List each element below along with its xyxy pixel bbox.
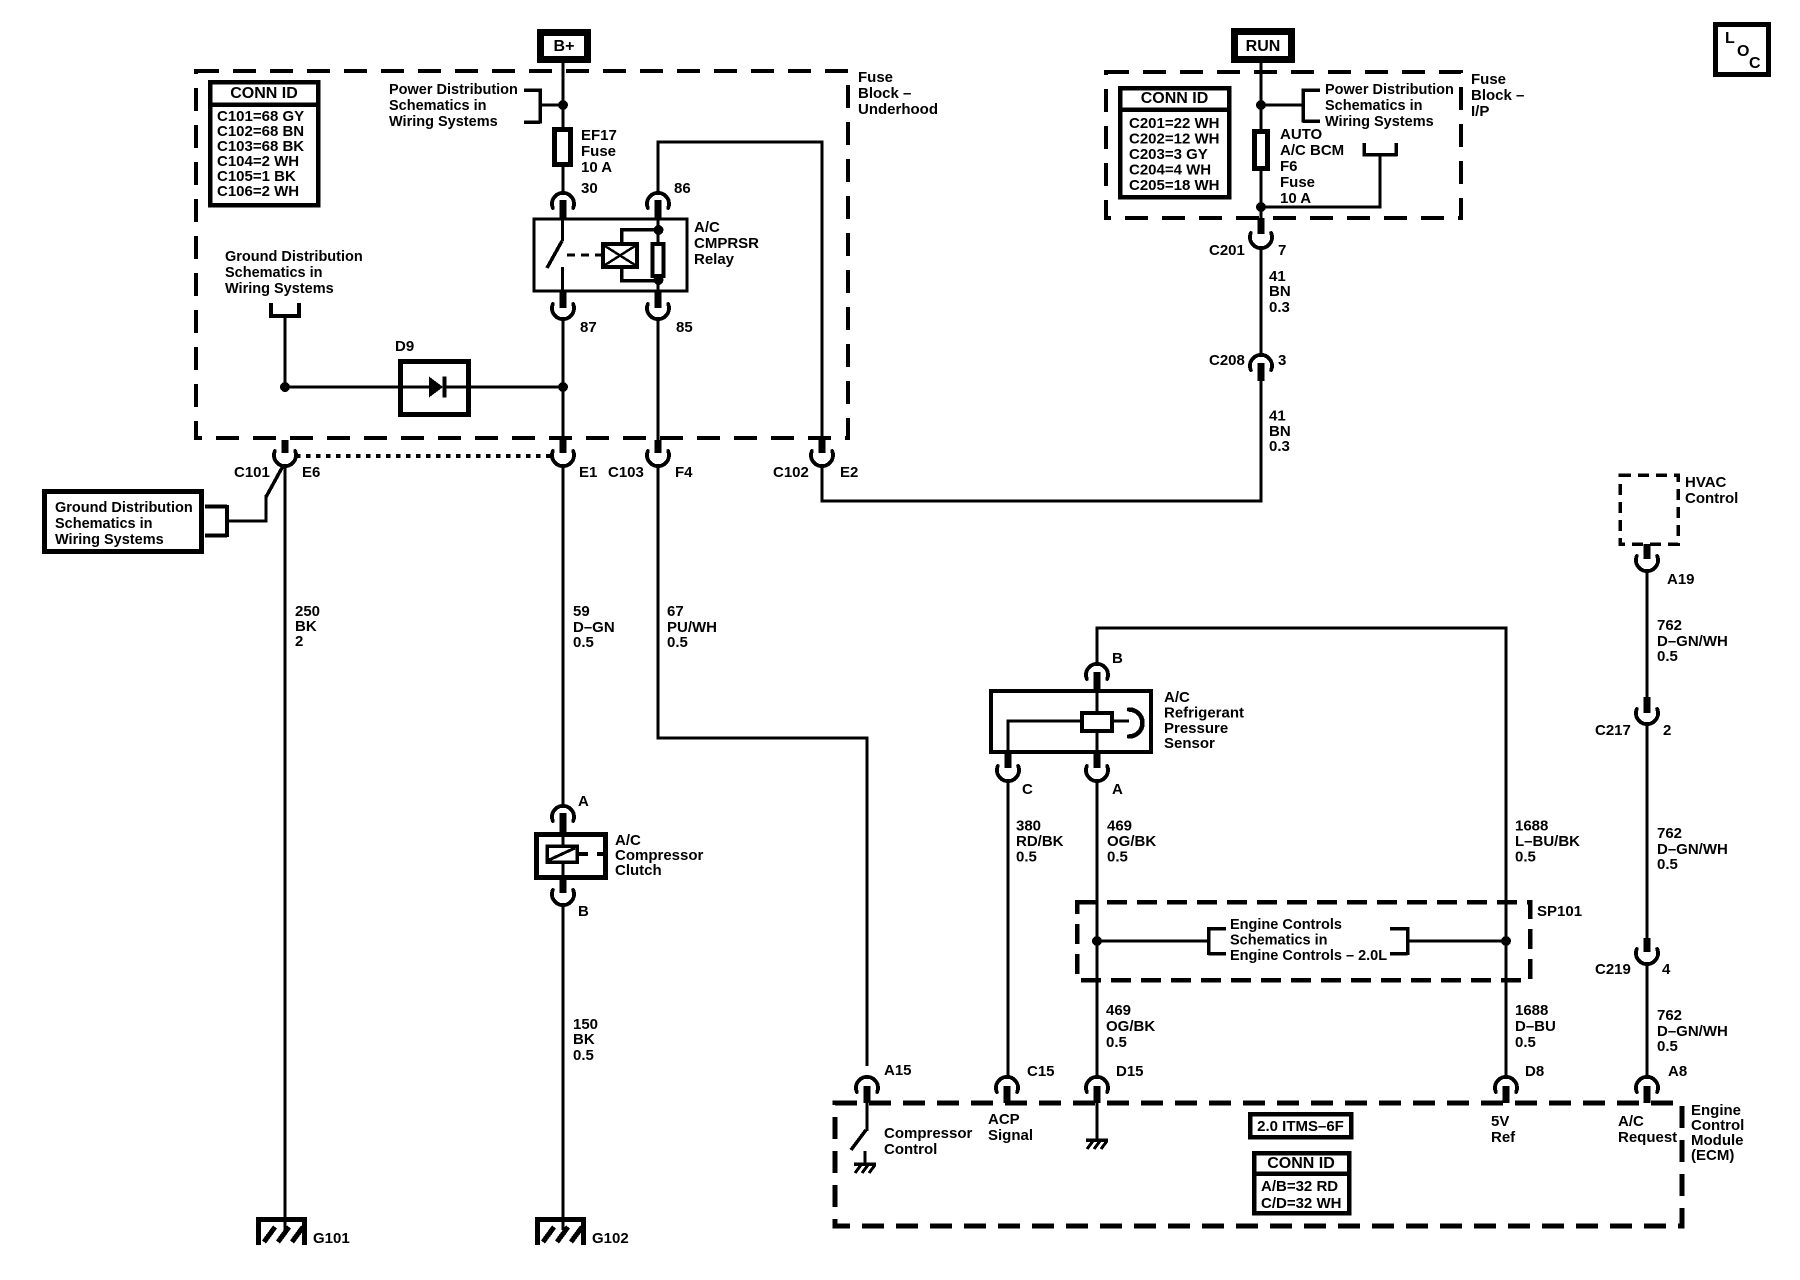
connector body dotted line C103 <box>296 454 552 458</box>
svg-text:0.5: 0.5 <box>1657 856 1678 873</box>
svg-text:E6: E6 <box>302 464 320 481</box>
svg-text:E2: E2 <box>840 464 858 481</box>
svg-text:0.5: 0.5 <box>573 634 594 651</box>
wire C101 branch to ground callout <box>266 466 283 497</box>
power symbol B+ <box>541 33 588 60</box>
splice pack SP101 dashed box <box>1077 902 1530 980</box>
svg-text:0.5: 0.5 <box>1016 849 1037 866</box>
svg-text:Ground Distribution: Ground Distribution <box>225 249 363 265</box>
wire E2 to C208 junction <box>821 466 824 503</box>
svg-text:Refrigerant: Refrigerant <box>1164 705 1244 722</box>
connector C103 pin E1 <box>560 440 567 453</box>
svg-text:86: 86 <box>674 180 691 197</box>
svg-text:D8: D8 <box>1525 1063 1544 1080</box>
svg-text:30: 30 <box>581 180 598 197</box>
CONN ID table (underhood) <box>210 82 318 205</box>
svg-text:41: 41 <box>1269 408 1286 425</box>
wire B+ down to fuse EF17 <box>562 63 565 130</box>
svg-text:C103: C103 <box>608 464 644 481</box>
svg-text:C102: C102 <box>773 464 809 481</box>
svg-text:E1: E1 <box>579 464 597 481</box>
svg-text:59: 59 <box>573 603 590 620</box>
connector ECM pin C15 <box>996 1077 1018 1092</box>
svg-text:Control: Control <box>1685 490 1738 507</box>
ECM compressor control switch <box>866 1103 869 1131</box>
svg-text:C201: C201 <box>1209 242 1245 259</box>
svg-text:10 A: 10 A <box>1280 190 1311 207</box>
svg-text:CMPRSR: CMPRSR <box>694 235 759 252</box>
connector C201 pin 7 <box>1258 218 1265 234</box>
fuse F6 AUTO A/C BCM 10A <box>1255 132 1268 169</box>
svg-text:L: L <box>1725 30 1735 47</box>
svg-text:D–BU: D–BU <box>1515 1018 1556 1035</box>
svg-text:380: 380 <box>1016 818 1041 835</box>
svg-text:Block –: Block – <box>858 85 911 102</box>
svg-text:A/B=32 RD: A/B=32 RD <box>1261 1178 1338 1195</box>
connector ECM pin A15 <box>856 1077 878 1092</box>
node D9 wire left <box>280 382 290 392</box>
svg-text:AUTO: AUTO <box>1280 126 1323 143</box>
svg-text:A/C: A/C <box>694 219 720 236</box>
svg-text:BN: BN <box>1269 283 1291 300</box>
svg-text:Signal: Signal <box>988 1127 1033 1144</box>
svg-text:Power Distribution: Power Distribution <box>1325 82 1454 98</box>
wire SP101 right <box>1407 940 1506 943</box>
wire C219 to A8 <box>1646 964 1649 1077</box>
svg-text:Fuse: Fuse <box>1280 174 1315 191</box>
wire relay 86 feed from C102 <box>657 142 660 194</box>
svg-text:C201=22 WH: C201=22 WH <box>1129 115 1219 132</box>
compressor clutch coil symbol <box>562 832 565 848</box>
svg-text:0.3: 0.3 <box>1269 299 1290 316</box>
svg-text:Underhood: Underhood <box>858 101 938 118</box>
svg-text:L–BU/BK: L–BU/BK <box>1515 833 1580 850</box>
junction node on B+ wire <box>558 100 568 110</box>
wire 5V rail top <box>1096 627 1099 666</box>
callout bracket Power Distribution (underhood) <box>524 88 540 92</box>
connector pin 85 <box>655 291 662 308</box>
svg-text:Wiring Systems: Wiring Systems <box>225 281 334 297</box>
svg-text:Control: Control <box>884 1141 937 1158</box>
svg-text:Engine Controls – 2.0L: Engine Controls – 2.0L <box>1230 948 1387 964</box>
svg-text:0.5: 0.5 <box>1106 1034 1127 1051</box>
connector sensor pin A <box>1094 754 1101 768</box>
svg-text:10 A: 10 A <box>581 159 612 176</box>
connector pin 86 <box>647 193 669 208</box>
svg-text:G102: G102 <box>592 1230 629 1247</box>
svg-text:762: 762 <box>1657 825 1682 842</box>
svg-text:Relay: Relay <box>694 251 735 268</box>
wire E1 to compressor clutch A <box>562 466 565 806</box>
junction node below F6 <box>1256 202 1266 212</box>
svg-text:Request: Request <box>1618 1129 1677 1146</box>
svg-text:2: 2 <box>295 633 303 650</box>
wire sensor A to D15 <box>1096 781 1099 1077</box>
svg-text:Fuse: Fuse <box>1471 71 1506 88</box>
wire D9 left segment <box>285 386 400 389</box>
svg-text:Schematics in: Schematics in <box>55 516 153 532</box>
connector ECM pin D8 <box>1495 1077 1517 1092</box>
svg-text:C217: C217 <box>1595 722 1631 739</box>
svg-text:C/D=32 WH: C/D=32 WH <box>1261 1195 1341 1212</box>
svg-text:I/P: I/P <box>1471 103 1489 120</box>
A/C refrigerant pressure sensor box <box>991 691 1151 752</box>
svg-text:Compressor: Compressor <box>884 1125 973 1142</box>
connector ECM pin A8 <box>1636 1077 1658 1092</box>
svg-text:Wiring Systems: Wiring Systems <box>389 114 498 130</box>
svg-text:A/C: A/C <box>1164 689 1190 706</box>
ECM D15 wire to ground <box>1096 1103 1099 1140</box>
svg-text:O: O <box>1737 43 1749 60</box>
connector C219 pin 4 <box>1644 938 1651 952</box>
svg-text:SP101: SP101 <box>1537 903 1582 920</box>
svg-text:Fuse: Fuse <box>858 69 893 86</box>
wire SP101 left <box>1097 940 1208 943</box>
svg-text:Wiring Systems: Wiring Systems <box>1325 114 1434 130</box>
svg-text:CONN ID: CONN ID <box>230 85 298 102</box>
svg-text:762: 762 <box>1657 1007 1682 1024</box>
wire A19 to C217 <box>1646 571 1649 698</box>
svg-text:OG/BK: OG/BK <box>1106 1018 1155 1035</box>
node SP101 left <box>1092 936 1102 946</box>
svg-text:469: 469 <box>1107 818 1132 835</box>
node SP101 right <box>1501 936 1511 946</box>
wire C101 to G101 <box>284 466 287 1230</box>
connector C101 pin E6 <box>282 440 289 453</box>
connector clutch pin B <box>560 879 567 893</box>
svg-text:Schematics in: Schematics in <box>1230 933 1328 949</box>
svg-text:BK: BK <box>573 1031 595 1048</box>
ECM internal ground (D15) <box>1086 1140 1108 1149</box>
svg-text:C204=4 WH: C204=4 WH <box>1129 162 1211 179</box>
svg-text:Schematics in: Schematics in <box>389 98 487 114</box>
svg-text:Ref: Ref <box>1491 1129 1516 1146</box>
wire clutch B to G102 <box>562 905 565 1230</box>
svg-text:0.5: 0.5 <box>1107 849 1128 866</box>
ECM internal ground (compressor control) <box>854 1164 876 1173</box>
svg-text:CONN ID: CONN ID <box>1267 1155 1335 1172</box>
svg-text:87: 87 <box>580 319 597 336</box>
svg-text:Clutch: Clutch <box>615 862 662 879</box>
svg-text:C101: C101 <box>234 464 270 481</box>
svg-text:ACP: ACP <box>988 1111 1020 1128</box>
svg-text:RD/BK: RD/BK <box>1016 833 1064 850</box>
svg-text:C: C <box>1022 781 1033 798</box>
svg-text:A: A <box>1112 781 1123 798</box>
svg-text:4: 4 <box>1662 961 1671 978</box>
svg-text:1688: 1688 <box>1515 818 1548 835</box>
svg-text:B: B <box>578 903 589 920</box>
svg-text:0.5: 0.5 <box>667 634 688 651</box>
callout bracket engine controls right <box>1406 927 1410 955</box>
engine control module dashed box <box>835 1103 1682 1226</box>
fuse EF17 10A <box>555 130 571 165</box>
svg-text:HVAC: HVAC <box>1685 474 1727 491</box>
svg-text:0.5: 0.5 <box>573 1047 594 1064</box>
compressor clutch box <box>537 835 606 878</box>
connector C208 pin 3 <box>1250 355 1272 370</box>
svg-text:B: B <box>1112 650 1123 667</box>
wire fuse EF17 to relay pin 30 <box>562 167 565 194</box>
svg-text:EF17: EF17 <box>581 127 617 144</box>
ground G102 <box>535 1217 586 1245</box>
connector sensor pin C <box>1005 754 1012 768</box>
connector ECM pin D15 <box>1086 1077 1108 1092</box>
fuse block I/P dashed box <box>1106 72 1461 218</box>
connector sensor pin B <box>1086 664 1108 679</box>
svg-text:C106=2 WH: C106=2 WH <box>217 183 299 200</box>
relay suppression resistor <box>657 219 660 246</box>
connector C103 pin F4 <box>655 440 662 453</box>
svg-text:A8: A8 <box>1668 1063 1687 1080</box>
svg-text:A15: A15 <box>884 1062 912 1079</box>
svg-text:3: 3 <box>1278 352 1286 369</box>
svg-text:0.5: 0.5 <box>1515 1034 1536 1051</box>
svg-text:C208: C208 <box>1209 352 1245 369</box>
diode D9 box <box>401 362 469 415</box>
svg-text:0.5: 0.5 <box>1657 1038 1678 1055</box>
svg-text:CONN ID: CONN ID <box>1141 90 1209 107</box>
svg-text:Ground Distribution: Ground Distribution <box>55 500 193 516</box>
wire sensor C to C15 <box>1007 781 1010 1077</box>
svg-text:0.5: 0.5 <box>1657 648 1678 665</box>
svg-text:762: 762 <box>1657 617 1682 634</box>
svg-text:A: A <box>578 793 589 810</box>
svg-text:5V: 5V <box>1491 1113 1509 1130</box>
ground distribution schematics box (left) <box>45 492 202 552</box>
svg-text:67: 67 <box>667 603 684 620</box>
svg-text:F4: F4 <box>675 464 693 481</box>
svg-text:(ECM): (ECM) <box>1691 1147 1734 1164</box>
wire F4 down and right to A15 <box>657 466 660 740</box>
ground G101 <box>256 1217 307 1245</box>
relay coil (crossed box) <box>603 244 637 267</box>
svg-text:C15: C15 <box>1027 1063 1055 1080</box>
relay A/C CMPRSR box <box>534 219 687 291</box>
svg-text:85: 85 <box>676 319 693 336</box>
svg-text:C205=18 WH: C205=18 WH <box>1129 177 1219 194</box>
svg-text:Power Distribution: Power Distribution <box>389 82 518 98</box>
wire relay 87 down to E1 <box>562 318 565 440</box>
svg-text:2: 2 <box>1663 722 1671 739</box>
svg-text:D9: D9 <box>395 338 414 355</box>
svg-text:469: 469 <box>1106 1002 1131 1019</box>
wire relay 85 down to F4 <box>657 318 660 440</box>
svg-text:G101: G101 <box>313 1230 350 1247</box>
connector pin 87 <box>560 291 567 308</box>
wire D9 right segment <box>469 386 563 389</box>
svg-text:7: 7 <box>1278 242 1286 259</box>
callout bracket Power Distribution (I/P) <box>1261 104 1303 107</box>
svg-text:Schematics in: Schematics in <box>225 265 323 281</box>
svg-text:F6: F6 <box>1280 158 1298 175</box>
svg-text:B+: B+ <box>554 38 575 55</box>
svg-text:RUN: RUN <box>1246 38 1281 55</box>
svg-text:Sensor: Sensor <box>1164 735 1215 752</box>
fuse block underhood dashed box <box>196 71 848 438</box>
relay actuation dashed link <box>567 254 601 257</box>
relay node coil top <box>654 225 664 235</box>
connector A19 <box>1644 544 1651 559</box>
svg-text:A19: A19 <box>1667 571 1695 588</box>
svg-text:A/C: A/C <box>1618 1113 1644 1130</box>
LOC legend box <box>1716 25 1769 75</box>
svg-text:1688: 1688 <box>1515 1002 1548 1019</box>
wire RUN down to fuse F6 <box>1260 63 1263 132</box>
node D9 wire right <box>558 382 568 392</box>
svg-text:C202=12 WH: C202=12 WH <box>1129 131 1219 148</box>
callout bracket below Wiring Systems (I/P) <box>1362 143 1366 156</box>
svg-text:Schematics in: Schematics in <box>1325 98 1423 114</box>
callout bracket ground distribution (left) <box>225 505 229 537</box>
svg-text:Wiring Systems: Wiring Systems <box>55 532 164 548</box>
svg-text:Engine Controls: Engine Controls <box>1230 917 1342 933</box>
svg-text:Fuse: Fuse <box>581 143 616 160</box>
svg-text:C219: C219 <box>1595 961 1631 978</box>
svg-text:Block –: Block – <box>1471 87 1524 104</box>
junction node on RUN wire <box>1256 100 1266 110</box>
callout bracket engine controls left <box>1207 927 1211 955</box>
svg-text:OG/BK: OG/BK <box>1107 833 1156 850</box>
connector key box 2.0 ITMS-6F <box>1250 1114 1351 1137</box>
wire fuse F6 down to C201 <box>1260 168 1263 218</box>
connector C102 pin E2 <box>819 440 826 453</box>
relay switch contacts <box>561 219 564 241</box>
power symbol RUN <box>1235 32 1292 60</box>
svg-text:0.5: 0.5 <box>1515 849 1536 866</box>
connector pin 30 <box>552 193 574 208</box>
wire C217 to C219 <box>1646 724 1649 939</box>
svg-text:C: C <box>1749 55 1761 72</box>
svg-text:2.0 ITMS–6F: 2.0 ITMS–6F <box>1257 1118 1344 1135</box>
pressure sensor element <box>1096 689 1099 715</box>
diode D9 symbol <box>403 386 429 389</box>
HVAC control dashed box <box>1620 475 1678 544</box>
CONN ID table (ECM) <box>1254 1153 1349 1213</box>
relay coil loop wires <box>620 228 659 232</box>
connector C217 pin 2 <box>1644 697 1651 713</box>
svg-text:0.3: 0.3 <box>1269 438 1290 455</box>
wire C201 to C208 <box>1260 248 1263 356</box>
svg-text:C203=3 GY: C203=3 GY <box>1129 146 1208 163</box>
CONN ID table (I/P) <box>1120 88 1229 197</box>
svg-text:A/C BCM: A/C BCM <box>1280 142 1344 159</box>
relay node coil bottom <box>654 275 664 285</box>
connector clutch pin A <box>552 806 574 821</box>
svg-text:D15: D15 <box>1116 1063 1144 1080</box>
